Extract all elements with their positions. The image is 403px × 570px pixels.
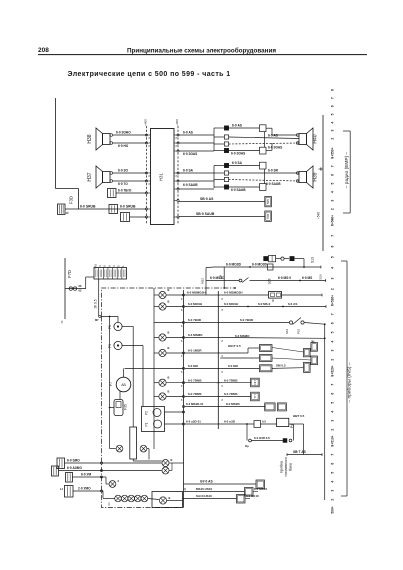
svg-text:6·0 МОЗН: 6·0 МОЗН xyxy=(224,302,238,306)
svg-text:6·0 7ВгО: 6·0 7ВгО xyxy=(118,189,132,193)
svg-text:М7: М7 xyxy=(95,318,99,322)
svg-text:С1: С1 xyxy=(107,502,111,506)
svg-text:8: 8 xyxy=(181,385,183,388)
svg-text:МS: МS xyxy=(93,264,97,269)
wire YM row xyxy=(73,476,102,478)
svg-text:F35: F35 xyxy=(124,404,128,410)
svg-text:4: 4 xyxy=(331,267,335,269)
wire lamp sub box right xyxy=(167,500,183,502)
ref box AS bottom xyxy=(256,480,265,489)
connector 4J2 xyxy=(121,213,130,222)
row MSMO long xyxy=(185,337,217,339)
lamp L4 xyxy=(154,352,159,354)
wire P7 down to F35 xyxy=(119,391,121,400)
svg-text:3: 3 xyxy=(331,490,335,492)
ref box 506 xyxy=(265,211,272,221)
row 1MSR xyxy=(185,352,217,354)
svg-text:8: 8 xyxy=(222,399,224,402)
svg-text:5: 5 xyxy=(331,472,335,474)
connector bottom-left 2 xyxy=(52,466,59,476)
svg-text:В: В xyxy=(168,299,170,303)
svg-text:Н40: Н40 xyxy=(313,134,319,143)
clock sub box xyxy=(152,492,183,508)
lamp L1 xyxy=(154,294,159,296)
wire row 7B3D inside xyxy=(154,322,184,324)
lamp L5 xyxy=(154,382,159,384)
flasher to ruler xyxy=(282,294,323,296)
svg-text:8: 8 xyxy=(331,157,335,159)
svg-text:2·0 УМО: 2·0 УМО xyxy=(78,487,91,491)
svg-text:В: В xyxy=(169,496,171,500)
wire lamps pair right xyxy=(169,470,172,472)
svg-text:Н37: Н37 xyxy=(87,172,93,181)
wire P9 right xyxy=(122,345,143,347)
lamp in sub box xyxy=(159,497,166,504)
svg-text:6·0 УМ: 6·0 УМ xyxy=(81,473,91,477)
svg-text:Ω: Ω xyxy=(272,299,274,303)
svg-text:6: 6 xyxy=(331,463,335,465)
ref pair A2 xyxy=(260,355,273,362)
svg-text:6·0 МSМОЗН: 6·0 МSМОЗН xyxy=(187,291,206,295)
inline connector box top-b xyxy=(260,147,267,154)
svg-text:2: 2 xyxy=(331,359,335,361)
wire 4J2 to radio xyxy=(130,216,147,218)
svg-text:5: 5 xyxy=(331,182,335,184)
wire A3MO row xyxy=(59,470,102,472)
svg-text:6·0 МS: 6·0 МS xyxy=(302,276,312,280)
svg-text:8: 8 xyxy=(331,224,335,226)
svg-text:6: 6 xyxy=(331,174,335,176)
svg-text:3: 3 xyxy=(331,350,335,352)
wire stub at radio frame line xyxy=(319,168,323,170)
wire radio SB-SAUB long xyxy=(179,216,265,218)
svg-text:5: 5 xyxy=(117,265,121,267)
svg-text:4: 4 xyxy=(98,265,102,267)
svg-text:6: 6 xyxy=(331,322,335,324)
svg-text:– радио (ЕМР) –: – радио (ЕМР) – xyxy=(344,151,350,188)
ref box MO row xyxy=(260,365,273,372)
wire open sq low mid2 xyxy=(229,180,299,182)
flasher box xyxy=(269,292,282,299)
wire SMO row xyxy=(65,462,102,464)
wire radio to pin group low 2 xyxy=(179,180,214,182)
svg-text:6·0 АS: 6·0 АS xyxy=(268,133,278,137)
svg-text:4: 4 xyxy=(331,411,335,413)
svg-text:1J: 1J xyxy=(60,487,63,491)
svg-text:МЗЗ: МЗЗ xyxy=(201,278,205,284)
wire P6 right xyxy=(122,326,133,328)
radio connector column right (dashed) xyxy=(177,126,179,225)
gauge P2 xyxy=(153,409,161,417)
svg-text:6·0 1МSR: 6·0 1МSR xyxy=(188,349,202,353)
svg-text:5: 5 xyxy=(331,402,335,404)
svg-text:ТП: ТП xyxy=(253,395,257,399)
row 7DMS 2 xyxy=(185,396,217,398)
svg-text:– приборы (INS) –: – приборы (INS) – xyxy=(347,362,353,402)
wire radio to pin group top 1 xyxy=(179,134,214,136)
svg-text:8: 8 xyxy=(222,355,224,358)
svg-text:бака: бака xyxy=(289,462,293,471)
svg-text:6·0 uЗD-31: 6·0 uЗD-31 xyxy=(186,420,201,424)
ref pair A1 xyxy=(260,345,273,352)
svg-text:10: 10 xyxy=(66,211,69,215)
ref box SA10 xyxy=(237,495,246,504)
svg-text:6·0 SR: 6·0 SR xyxy=(268,169,279,173)
connector F7D symbol xyxy=(69,287,72,290)
svg-text:В: В xyxy=(168,346,170,350)
wire supply feed vertical xyxy=(55,98,57,189)
svg-text:8: 8 xyxy=(181,355,183,358)
wire H37 top to radio xyxy=(113,172,147,174)
svg-text:топливного: топливного xyxy=(284,457,288,477)
svg-text:0.5: 0.5 xyxy=(262,420,266,424)
svg-text:7: 7 xyxy=(331,384,335,386)
ref box MS3D b xyxy=(277,403,286,411)
svg-text:GУ·0 АS: GУ·0 АS xyxy=(200,480,213,484)
inline connector box low-a xyxy=(260,162,267,169)
svg-text:6·0 SА: 6·0 SА xyxy=(232,161,243,165)
svg-text:SА10 НS10: SА10 НS10 xyxy=(196,494,212,498)
gauge box P2 P1 xyxy=(142,407,165,432)
small lamp left xyxy=(109,481,116,488)
wire H38 top to radio xyxy=(113,134,147,136)
svg-text:6·0 МSМО: 6·0 МSМО xyxy=(188,333,203,337)
radio unit H31 xyxy=(151,129,175,225)
svg-text:6·0 МОЗD: 6·0 МОЗD xyxy=(252,263,268,267)
wire H37 bottom to radio xyxy=(113,180,147,182)
svg-text:6·0 7ВЗD: 6·0 7ВЗD xyxy=(188,318,202,322)
svg-text:8: 8 xyxy=(176,175,178,178)
connector bottom-left 1 xyxy=(57,458,65,469)
wire open sq top mid2 xyxy=(229,143,299,144)
svg-text:6·0 SА: 6·0 SА xyxy=(183,169,194,173)
svg-text:506: 506 xyxy=(266,213,270,218)
svg-text:НS1Т 0.5: НS1Т 0.5 xyxy=(228,344,241,348)
svg-text:+540: +540 xyxy=(317,212,321,219)
svg-text:6·0 ЗОАS: 6·0 ЗОАS xyxy=(231,152,245,156)
lamp bus vertical xyxy=(153,288,155,449)
svg-text:8: 8 xyxy=(181,371,183,374)
row MO3H xyxy=(185,306,217,308)
svg-text:6: 6 xyxy=(331,105,335,107)
svg-text:В: В xyxy=(168,389,170,393)
svg-text:ΩВТ 0.5: ΩВТ 0.5 xyxy=(293,414,305,418)
switch S28 contact xyxy=(239,279,242,282)
pin number marks xyxy=(149,137,224,402)
svg-text:ИП: ИП xyxy=(253,380,257,384)
wire fuel loop xyxy=(251,440,283,442)
dimmer P10 xyxy=(289,321,292,324)
svg-text:б: б xyxy=(118,479,120,483)
svg-text:8: 8 xyxy=(222,385,224,388)
connector bottom-left 3 xyxy=(66,473,73,483)
svg-text:8: 8 xyxy=(176,137,178,140)
svg-text:9: 9 xyxy=(107,265,111,267)
svg-text:пробка: пробка xyxy=(280,460,284,473)
svg-text:F3D: F3D xyxy=(69,196,74,204)
svg-text:Р1: Р1 xyxy=(145,422,149,426)
svg-text:6·0 МSМОЗН: 6·0 МSМОЗН xyxy=(224,291,243,295)
junction into cluster xyxy=(99,315,101,317)
svg-text:+540+: +540+ xyxy=(331,215,335,224)
svg-text:6·0 МSЗD: 6·0 МSЗD xyxy=(210,276,225,280)
svg-text:8: 8 xyxy=(331,89,335,91)
speaker H40 xyxy=(296,128,313,150)
svg-text:6·0 АS: 6·0 АS xyxy=(183,131,193,135)
svg-text:SВ·0 АS: SВ·0 АS xyxy=(200,197,214,201)
svg-text:66: 66 xyxy=(79,284,82,288)
svg-text:6·0 SАUВ: 6·0 SАUВ xyxy=(231,188,246,192)
lamp pair row 463 xyxy=(102,462,162,464)
svg-text:6·0 SА10: 6·0 SА10 xyxy=(246,494,259,498)
row of five lamps xyxy=(102,490,104,492)
svg-text:6·0 ЗО: 6·0 ЗО xyxy=(118,169,128,173)
svg-text:6: 6 xyxy=(331,245,335,247)
wire box to speaker H40 a xyxy=(266,127,272,129)
gauge P1 xyxy=(154,420,162,428)
connector bottom-left 4 xyxy=(65,486,74,498)
bracket radio group xyxy=(349,131,351,213)
svg-text:+550+: +550+ xyxy=(331,147,335,156)
pin bracket top xyxy=(213,128,215,151)
svg-text:6·0 7DМS: 6·0 7DМS xyxy=(188,392,202,396)
resistor element xyxy=(130,427,137,459)
pin bracket low xyxy=(213,166,215,189)
wire cluster feed inside xyxy=(102,316,119,318)
svg-text:6·0 ЗОАS: 6·0 ЗОАS xyxy=(183,152,197,156)
svg-text:8: 8 xyxy=(181,309,183,312)
wire P1 out xyxy=(165,423,184,425)
svg-text:62: 62 xyxy=(79,289,82,293)
wire row S13 xyxy=(264,257,268,261)
svg-text:+400: +400 xyxy=(144,119,148,126)
lamp pair row 470.5 xyxy=(102,470,162,472)
svg-text:Электрические цепи с 500 по 59: Электрические цепи с 500 по 599 - часть … xyxy=(68,71,231,78)
external connector pins xyxy=(216,294,220,296)
svg-text:SВ·Т АS: SВ·Т АS xyxy=(293,450,306,454)
svg-text:Н39: Н39 xyxy=(313,172,319,181)
wire sq to connector box top2 xyxy=(229,150,260,152)
wire S13 row to ruler xyxy=(304,266,321,268)
svg-text:6·0 uЗD: 6·0 uЗD xyxy=(224,420,236,424)
svg-text:6·0 7О: 6·0 7О xyxy=(118,182,128,186)
wire H38 bottom to radio xyxy=(113,142,147,144)
row MSMO3H right xyxy=(220,294,268,296)
row MS3D bottom xyxy=(185,406,217,408)
svg-text:6·0 7ВЗD: 6·0 7ВЗD xyxy=(240,318,254,322)
svg-text:4: 4 xyxy=(331,191,335,193)
svg-text:S16: S16 xyxy=(285,329,289,335)
svg-text:6·0 МSМО: 6·0 МSМО xyxy=(235,334,250,338)
svg-text:2: 2 xyxy=(331,138,335,140)
wire sq to connector box top xyxy=(229,127,260,129)
svg-text:8: 8 xyxy=(222,309,224,312)
lamp right of resistor xyxy=(140,445,147,452)
svg-text:8: 8 xyxy=(176,145,178,148)
wire branch to block xyxy=(85,277,87,289)
svg-text:6·0 АS: 6·0 АS xyxy=(232,124,242,128)
svg-text:8: 8 xyxy=(181,399,183,402)
wire supply feed step xyxy=(56,188,79,190)
svg-text:3: 3 xyxy=(331,277,335,279)
svg-text:7: 7 xyxy=(331,97,335,99)
svg-text:Ωμ: Ωμ xyxy=(245,444,249,448)
svg-text:S26: S26 xyxy=(319,274,323,280)
svg-text:6·0 АЗМО: 6·0 АЗМО xyxy=(67,466,82,470)
gauge P7 xyxy=(116,377,131,392)
svg-text:Н38: Н38 xyxy=(87,134,93,143)
connector F3D xyxy=(58,204,66,215)
svg-text:6·0 МS·0: 6·0 МS·0 xyxy=(258,302,271,306)
svg-text:8: 8 xyxy=(222,340,224,343)
lamp L2 xyxy=(154,306,159,308)
svg-text:+400: +400 xyxy=(175,119,179,126)
right ref boxes column A xyxy=(311,343,318,352)
vertical collector right xyxy=(324,324,326,500)
gauge P9 xyxy=(114,341,122,349)
ref box 7DMS2 xyxy=(251,392,260,401)
links between ref boxes xyxy=(272,348,304,353)
ref box 505 xyxy=(265,196,272,206)
svg-text:В: В xyxy=(168,288,170,292)
connector 2J4 xyxy=(108,189,117,198)
svg-text:В: В xyxy=(168,376,170,380)
svg-text:6·0 SRUB: 6·0 SRUB xyxy=(80,205,96,209)
svg-text:208: 208 xyxy=(38,47,49,54)
wire 2J4 to radio (7BrO) xyxy=(116,192,147,194)
ref box MS3D a xyxy=(265,403,275,411)
svg-text:3: 3 xyxy=(331,420,335,422)
svg-text:8: 8 xyxy=(331,375,335,377)
svg-text:В: В xyxy=(171,458,173,462)
svg-text:8: 8 xyxy=(181,340,183,343)
ref box 7DMS1 xyxy=(251,378,260,387)
branch fuel loop down xyxy=(246,424,248,441)
svg-text:6·0 SRUB: 6·0 SRUB xyxy=(120,205,136,209)
svg-text:1: 1 xyxy=(121,265,125,267)
svg-text:+510+: +510+ xyxy=(331,435,335,444)
svg-text:8: 8 xyxy=(181,325,183,328)
wire block down (3K 0.5) xyxy=(98,279,100,317)
link boxes top vertical xyxy=(264,132,266,148)
svg-text:6·0 ЗОНО: 6·0 ЗОНО xyxy=(116,131,131,135)
svg-text:F7D: F7D xyxy=(67,270,72,278)
wire F3D to radio (SRUB) xyxy=(65,208,147,210)
row 7DMS 1 xyxy=(185,382,217,384)
svg-text:6·0 АS: 6·0 АS xyxy=(288,302,297,306)
wire row MO inside from P7 xyxy=(125,367,184,369)
svg-text:7: 7 xyxy=(331,165,335,167)
svg-text:S13: S13 xyxy=(311,257,315,263)
svg-text:4: 4 xyxy=(112,265,116,267)
svg-text:6·0 МО: 6·0 МО xyxy=(188,364,199,368)
wire F35 to bus xyxy=(110,407,114,409)
speaker H39 xyxy=(296,166,313,188)
svg-text:505: 505 xyxy=(266,199,270,204)
svg-text:6·0 МSЗD: 6·0 МSЗD xyxy=(226,402,241,406)
instrument cluster boundary xyxy=(102,317,184,508)
svg-text:S28: S28 xyxy=(268,278,272,284)
svg-text:6·0 МО: 6·0 МО xyxy=(228,364,239,368)
svg-text:5: 5 xyxy=(331,113,335,115)
svg-text:Р9: Р9 xyxy=(108,344,112,348)
row MS10 xyxy=(184,491,245,493)
svg-text:2: 2 xyxy=(331,288,335,290)
wire P4 right xyxy=(289,423,304,425)
radio section frame line xyxy=(322,115,324,251)
wire open sq low mid xyxy=(229,172,299,174)
fuse F35 xyxy=(114,400,123,416)
wire five lamps right xyxy=(148,499,159,500)
svg-text:4: 4 xyxy=(331,481,335,483)
svg-text:6·0 SАUВ: 6·0 SАUВ xyxy=(183,183,198,187)
left riser rows xyxy=(205,268,207,295)
svg-text:6·0 SМО: 6·0 SМО xyxy=(67,459,80,463)
svg-text:4: 4 xyxy=(331,340,335,342)
connector block strip xyxy=(94,268,127,280)
riser rows to cluster top xyxy=(223,267,225,288)
radio pins right xyxy=(177,134,179,136)
svg-text:4: 4 xyxy=(331,121,335,123)
fuel gauge P4 xyxy=(277,418,289,426)
small box u3D xyxy=(254,421,261,428)
wire row MO3D xyxy=(206,266,214,269)
wire radio SB-AS long xyxy=(179,201,265,203)
row u3D bottom xyxy=(185,423,217,425)
svg-text:7: 7 xyxy=(331,313,335,315)
svg-text:Р2: Р2 xyxy=(145,411,149,415)
wire P2 out xyxy=(165,411,184,413)
svg-text:А1: А1 xyxy=(184,487,187,491)
svg-text:7: 7 xyxy=(331,235,335,237)
svg-text:6·0 МОЗН: 6·0 МОЗН xyxy=(188,302,202,306)
wire radio to pin group top 2 xyxy=(179,142,214,144)
svg-text:6·0 НО: 6·0 НО xyxy=(118,144,129,148)
svg-text:6·0 7DМS: 6·0 7DМS xyxy=(224,378,238,382)
svg-text:5: 5 xyxy=(331,331,335,333)
wire radio to pin group top 3 xyxy=(179,150,214,152)
svg-text:6·0 НЗП 0.5: 6·0 НЗП 0.5 xyxy=(254,436,270,440)
lamp L3 xyxy=(154,337,159,339)
svg-text:6·0 МОЗD: 6·0 МОЗD xyxy=(226,263,242,267)
svg-text:6·0 7DМS: 6·0 7DМS xyxy=(188,378,202,382)
wire F7D branch xyxy=(65,288,86,290)
svg-text:2: 2 xyxy=(331,499,335,501)
svg-text:ЗК 0.5: ЗК 0.5 xyxy=(93,299,97,308)
wire box to speaker H40 b xyxy=(266,149,272,151)
wire sq to connector box low-a xyxy=(229,165,260,167)
svg-text:МS10 НS10: МS10 НS10 xyxy=(196,487,213,491)
svg-text:Н31: Н31 xyxy=(159,172,164,180)
svg-text:6·0 МS·0: 6·0 МS·0 xyxy=(278,276,291,280)
wire row 477 to small lamp xyxy=(102,476,107,478)
speaker H37 xyxy=(96,166,113,188)
svg-text:2: 2 xyxy=(331,208,335,210)
svg-text:SМ 0.5: SМ 0.5 xyxy=(276,363,286,367)
svg-text:SВ·0 SАUВ: SВ·0 SАUВ xyxy=(196,212,215,216)
svg-text:6·0 МSЗD-31: 6·0 МSЗD-31 xyxy=(186,402,204,406)
svg-text:В: В xyxy=(168,330,170,334)
row SA10 xyxy=(183,498,237,500)
wire resistor bottom hook xyxy=(132,459,134,461)
svg-text:6: 6 xyxy=(331,393,335,395)
svg-text:АВ: АВ xyxy=(121,383,126,387)
bracket instruments group xyxy=(346,261,348,496)
wire open sq top mid xyxy=(229,137,299,139)
svg-text:6·0 МS10: 6·0 МS10 xyxy=(254,487,267,491)
link boxes low vertical xyxy=(264,169,266,184)
row AS bottom long xyxy=(184,483,257,485)
